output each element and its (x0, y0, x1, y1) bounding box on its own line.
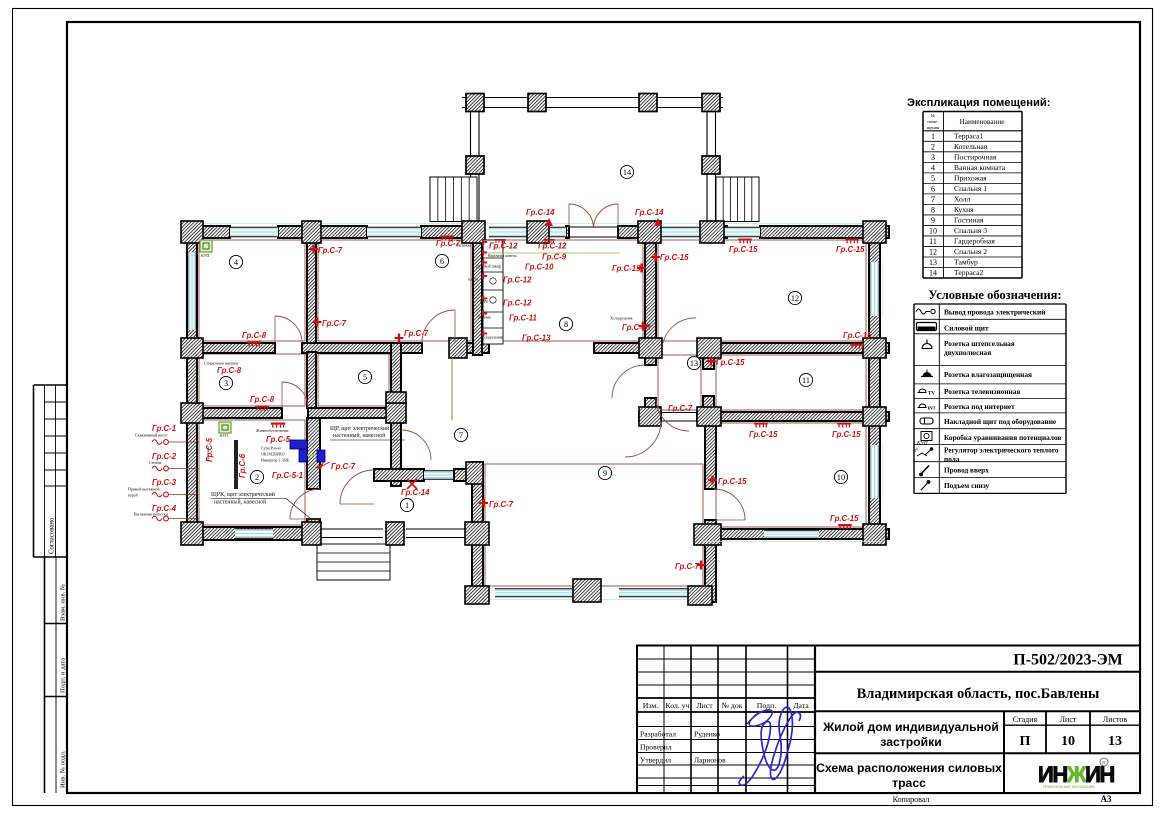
svg-text:Подъем снизу: Подъем снизу (944, 481, 990, 490)
svg-text:№ док: № док (721, 701, 742, 710)
svg-text:Гр.С-7: Гр.С-7 (318, 246, 343, 255)
window room12 north-1 (660, 227, 702, 236)
window room10 east (870, 445, 879, 498)
svg-text:13: 13 (1108, 734, 1122, 749)
svg-text:Гр.С-7: Гр.С-7 (331, 462, 356, 471)
svg-text:Листов: Листов (1103, 715, 1128, 724)
svg-text:Инв. № подл.: Инв. № подл. (60, 750, 67, 788)
svg-text:Гр.С-12: Гр.С-12 (538, 242, 567, 251)
olive line hall (451, 357, 453, 420)
svg-text:Разработал: Разработал (640, 730, 676, 739)
wall y343 segment (183, 343, 275, 353)
window room4 north (230, 227, 278, 236)
socket group (440, 236, 454, 241)
svg-text:Гр.С-14: Гр.С-14 (526, 208, 555, 217)
svg-text:Спальня 2: Спальня 2 (954, 247, 987, 256)
kitchen counter (483, 240, 503, 344)
svg-text:Гр.С-13: Гр.С-13 (612, 264, 641, 273)
svg-text:Гр.С-15: Гр.С-15 (830, 514, 859, 523)
svg-text:Розетка влагозащищенная: Розетка влагозащищенная (944, 370, 1032, 379)
svg-text:Гр.С-15: Гр.С-15 (716, 358, 745, 367)
svg-text:Чайник: Чайник (478, 315, 491, 320)
svg-text:10: 10 (929, 226, 937, 235)
socket group (255, 406, 269, 411)
door room2 (290, 489, 320, 519)
junction cross (639, 407, 661, 426)
wavy outlet symbol (152, 492, 162, 497)
socket (479, 499, 488, 508)
svg-text:1: 1 (405, 501, 409, 510)
svg-text:2: 2 (931, 142, 935, 151)
svg-text:Дата: Дата (793, 701, 809, 710)
window room9 south w (495, 589, 573, 597)
terrace left rail (470, 98, 472, 227)
wavy outlet symbol (152, 466, 162, 471)
svg-text:2: 2 (255, 473, 259, 482)
north wall segment (566, 226, 569, 238)
svg-text:настенный, навесной: настенный, навесной (333, 432, 385, 439)
terrace column (702, 156, 720, 174)
svg-text:Гр.С-13: Гр.С-13 (622, 323, 651, 332)
svg-text:Ванная комната: Ванная комната (954, 163, 1006, 172)
window room6 north (367, 227, 421, 236)
window room4 west (188, 252, 196, 330)
wall room2 east upper (307, 418, 320, 489)
svg-text:6: 6 (931, 184, 935, 193)
svg-text:Розетка штепсельная: Розетка штепсельная (944, 339, 1015, 348)
svg-text:№: № (931, 113, 936, 118)
window room2 south (235, 529, 273, 538)
socket (697, 561, 706, 570)
socket (309, 245, 318, 254)
svg-text:ЩР, щит электрический: ЩР, щит электрический (330, 425, 389, 432)
window behind terrace (489, 227, 566, 236)
blue UPS boxes (290, 440, 307, 449)
window room12 north-2 (724, 227, 760, 236)
socket (395, 334, 404, 343)
svg-text:ЩРК, щит электрический: ЩРК, щит электрический (211, 491, 275, 498)
svg-text:Гр.С-12: Гр.С-12 (489, 242, 518, 251)
north wall segment (183, 226, 230, 238)
svg-text:Подп.: Подп. (757, 701, 776, 710)
svg-text:Проверил: Проверил (640, 743, 672, 752)
svg-text:плита: плита (468, 277, 478, 282)
socket group (838, 524, 852, 529)
central wall room8|12 (645, 238, 656, 343)
tambour west wall upper (645, 353, 656, 365)
svg-text:Гр.С-14: Гр.С-14 (635, 208, 664, 217)
terrace right rail (706, 98, 708, 227)
wall y408 segment (183, 408, 282, 418)
legend symbol: socket internet (919, 404, 926, 408)
svg-text:Инвертор 3 АВБ: Инвертор 3 АВБ (261, 458, 290, 463)
svg-text:Гр.С-15: Гр.С-15 (660, 253, 689, 262)
svg-text:Лист: Лист (696, 701, 713, 710)
svg-text:t°: t° (915, 447, 919, 454)
room number 14 (620, 165, 633, 178)
svg-text:3: 3 (931, 153, 935, 162)
junction cross (386, 392, 406, 403)
svg-text:Гр.С-11: Гр.С-11 (509, 314, 537, 323)
door room6 (422, 310, 455, 343)
junction cross (863, 338, 886, 358)
door tambour south out (625, 421, 661, 457)
terrace1 north wall (374, 469, 424, 481)
svg-text:Копировал: Копировал (893, 795, 930, 804)
junction cross (639, 338, 662, 358)
svg-text:Спальня 1: Спальня 1 (954, 184, 987, 193)
room number 11 (799, 373, 812, 386)
tambour east wall upper (703, 353, 714, 369)
north wall segment (618, 226, 660, 238)
legend symbol: surface board (920, 418, 933, 424)
east wall (869, 226, 880, 540)
junction cross (302, 522, 321, 545)
svg-text:трасс: трасс (892, 776, 926, 790)
svg-text:11: 11 (802, 376, 810, 385)
legend symbol: socket two-pole (922, 344, 932, 349)
door room4 (275, 316, 302, 343)
left margin table Vzam/Podp/Inv (44, 557, 46, 793)
svg-text:Стадия: Стадия (1013, 715, 1038, 724)
svg-text:Вывод провода электрический: Вывод провода электрический (944, 308, 1046, 317)
svg-text:6: 6 (440, 257, 444, 266)
svg-text:Розетка под интернет: Розетка под интернет (944, 402, 1015, 411)
svg-text:Экспликация помещений:: Экспликация помещений: (907, 97, 1050, 109)
svg-text:Жилой дом индивидуальной: Жилой дом индивидуальной (822, 720, 999, 734)
terrace right stairs (716, 177, 759, 222)
svg-text:Котельная: Котельная (954, 142, 988, 151)
socket marks kitchen (543, 239, 554, 243)
junction cross (466, 462, 483, 484)
door room3 (282, 382, 308, 408)
svg-text:11: 11 (929, 237, 937, 246)
junction cross (863, 221, 886, 243)
svg-text:Условные обозначения:: Условные обозначения: (928, 288, 1061, 302)
svg-text:Гр.С-7: Гр.С-7 (489, 500, 514, 509)
wall rooms6|8 (473, 236, 482, 355)
svg-text:8: 8 (564, 320, 568, 329)
svg-text:Силовой щит: Силовой щит (944, 324, 989, 333)
svg-text:Жизнеобеспечение: Жизнеобеспечение (256, 428, 289, 433)
junction cross (181, 338, 203, 358)
svg-text:Гр.С-15: Гр.С-15 (749, 430, 778, 439)
wall rooms4|6 (307, 236, 316, 343)
terrace column (702, 94, 720, 112)
svg-text:Согласовано: Согласовано (49, 517, 56, 554)
svg-text:8: 8 (931, 205, 935, 214)
junction cross (573, 579, 601, 602)
window room10 south (764, 530, 819, 538)
junction cross (181, 403, 203, 423)
window room12 east (870, 262, 879, 316)
wall y408 segment (308, 408, 401, 418)
svg-text:9: 9 (931, 216, 935, 225)
svg-text:Гр.С-5: Гр.С-5 (266, 435, 291, 444)
door hall-terrace1 (340, 470, 374, 504)
legend symbol: KUP box (921, 432, 932, 441)
terrace column (466, 94, 484, 112)
svg-text:Прихожая: Прихожая (954, 173, 987, 182)
svg-text:3: 3 (224, 379, 228, 388)
svg-text:Гр.С-15: Гр.С-15 (843, 331, 872, 340)
socket (639, 322, 648, 331)
svg-text:двухполюсная: двухполюсная (944, 348, 991, 357)
junction cross (694, 524, 721, 545)
socket (708, 476, 717, 485)
wall room2 east lower (307, 519, 320, 527)
svg-text:7: 7 (459, 431, 463, 440)
junction cross (638, 221, 661, 243)
room9 west wall (472, 462, 483, 602)
room number 9 (598, 466, 611, 479)
svg-text:INT: INT (928, 406, 936, 411)
svg-text:7: 7 (931, 195, 935, 204)
equipment bar room2 (234, 440, 238, 489)
svg-text:пола: пола (944, 455, 960, 464)
svg-text:Гр.С-8: Гр.С-8 (250, 395, 275, 404)
tambour bottom threshold (661, 412, 697, 414)
svg-text:Наименование: Наименование (960, 118, 1005, 126)
socket (651, 253, 660, 262)
svg-text:Гр.С-7: Гр.С-7 (668, 404, 693, 413)
svg-text:13: 13 (929, 258, 937, 267)
legend symbol: wire up (921, 466, 930, 475)
railing column (387, 523, 403, 545)
title block (637, 646, 1140, 794)
legend symbol: rise from below (921, 482, 929, 491)
svg-text:Прямой вытяжной: Прямой вытяжной (128, 487, 160, 492)
legend symbol: socket waterproof (923, 373, 931, 377)
svg-text:Утвердил: Утвердил (640, 756, 671, 765)
svg-text:12: 12 (791, 294, 799, 303)
junction cross (688, 586, 712, 605)
svg-text:CyberPower: CyberPower (261, 446, 282, 451)
junction cross (697, 338, 721, 358)
left margin table Soglasovano (34, 384, 68, 386)
svg-text:Розетка телевизионная: Розетка телевизионная (944, 387, 1020, 396)
legend symbol: wire outlet (916, 309, 930, 314)
junction cross (700, 221, 724, 243)
outside sill lines (184, 252, 186, 330)
svg-text:2кВ Связь: 2кВ Связь (206, 446, 210, 461)
svg-text:Провод вверх: Провод вверх (944, 466, 989, 475)
socket (637, 264, 646, 273)
svg-text:короб: короб (128, 493, 138, 498)
door arc left (569, 204, 594, 228)
south wall room2 (183, 527, 305, 540)
junction cross (527, 221, 549, 243)
svg-text:Коробка уравнивания потенциало: Коробка уравнивания потенциалов (944, 433, 1061, 442)
svg-text:КУП: КУП (201, 253, 209, 258)
svg-text:Варочная панель: Варочная панель (488, 253, 517, 258)
svg-text:Кухня: Кухня (954, 205, 974, 214)
sill lines along north wall (190, 223, 888, 225)
svg-text:Стиральная машина: Стиральная машина (204, 361, 239, 366)
room number 3 (219, 376, 232, 389)
junction cross (462, 221, 485, 243)
room number 13 (687, 356, 700, 369)
wavy outlet symbol (152, 516, 162, 521)
svg-text:5: 5 (363, 373, 367, 382)
svg-text:Накладной щит под оборудование: Накладной щит под оборудование (944, 417, 1057, 426)
terrace column (528, 94, 546, 112)
wall y343 segment (703, 343, 889, 353)
svg-text:Вытяжные решетки: Вытяжные решетки (134, 512, 169, 517)
svg-text:застройки: застройки (880, 735, 941, 749)
junction cross (181, 522, 203, 545)
svg-text:Гр.С-5-1: Гр.С-5-1 (272, 471, 303, 480)
svg-text:Гр.С-7: Гр.С-7 (404, 329, 429, 338)
room number 1 (400, 498, 413, 511)
svg-text:13: 13 (690, 359, 698, 368)
svg-text:Кол. уч: Кол. уч (665, 701, 689, 710)
svg-text:Постирочная: Постирочная (954, 152, 997, 161)
svg-text:Подп. и дата: Подп. и дата (60, 658, 67, 693)
north wall segment (421, 226, 472, 238)
room10 south wall (705, 529, 889, 539)
green line kitchen (488, 252, 620, 254)
svg-text:Руденко: Руденко (694, 730, 720, 739)
svg-text:Холл: Холл (954, 194, 970, 203)
svg-text:Гр.С-12: Гр.С-12 (503, 276, 532, 285)
svg-text:поме-: поме- (927, 119, 939, 124)
svg-text:Спальня 3: Спальня 3 (954, 226, 987, 235)
svg-text:1: 1 (931, 132, 935, 141)
svg-text:Терраса1: Терраса1 (954, 131, 984, 140)
door tambour south in (656, 398, 689, 431)
socket group (850, 344, 864, 349)
junction cross (302, 221, 321, 243)
tambour east wall lower (703, 396, 714, 412)
svg-text:14: 14 (929, 269, 937, 278)
room number 4 (229, 255, 242, 268)
junction cross (386, 522, 404, 545)
svg-text:Тамбур: Тамбур (954, 258, 978, 267)
svg-text:9: 9 (603, 469, 607, 478)
KUP green box room2 (219, 422, 231, 433)
door room12 (663, 318, 696, 343)
room9|10 wall upper (705, 421, 716, 489)
north wall door opening threshold (569, 226, 618, 228)
svg-text:П: П (1020, 734, 1031, 749)
north wall segment (760, 226, 889, 238)
room number 7 (454, 428, 467, 441)
svg-text:Регулятор электрического тепло: Регулятор электрического теплого (944, 446, 1059, 455)
socket group (845, 239, 859, 244)
svg-text:Холодильник: Холодильник (480, 335, 503, 340)
junction cross (465, 522, 489, 545)
svg-text:Гр.С-15: Гр.С-15 (836, 245, 865, 254)
window terrace1 north (424, 471, 454, 479)
svg-text:10: 10 (1061, 734, 1075, 749)
svg-text:Гр.С-8: Гр.С-8 (242, 331, 267, 340)
svg-text:5: 5 (931, 174, 935, 183)
svg-text:14: 14 (623, 168, 631, 177)
svg-text:КУП: КУП (220, 434, 228, 438)
junction cross (181, 221, 203, 243)
wall y343 segment (455, 343, 489, 353)
svg-text:OR1M2BPRO: OR1M2BPRO (261, 452, 285, 457)
svg-text:Гардеробная: Гардеробная (954, 236, 995, 245)
door arc right (594, 204, 619, 228)
window room9 south e (619, 589, 689, 597)
svg-text:настенный, навесной: настенный, навесной (214, 499, 266, 506)
svg-text:12: 12 (929, 248, 937, 257)
svg-text:ТV: ТV (928, 392, 935, 397)
hall stub wall (391, 343, 401, 397)
svg-text:Гр.С-15: Гр.С-15 (718, 477, 747, 486)
terrace top rail (462, 97, 723, 99)
svg-text:Гр.С-8: Гр.С-8 (217, 366, 242, 375)
svg-text:Терраса2: Терраса2 (954, 268, 984, 277)
terrace left stairs (430, 177, 477, 222)
junction cross (863, 524, 886, 545)
svg-text:Гр.С-14: Гр.С-14 (401, 488, 430, 497)
svg-text:4: 4 (931, 163, 935, 172)
wall y412 segment (697, 412, 889, 421)
svg-text:Гр.С-15: Гр.С-15 (729, 245, 758, 254)
svg-text:10: 10 (837, 473, 845, 482)
signature (739, 707, 800, 785)
legend symbol: socket TV (919, 389, 926, 393)
svg-text:Гр.С-7: Гр.С-7 (322, 319, 347, 328)
door tambour west (612, 365, 645, 398)
door room10 (714, 489, 745, 520)
wall y343 segment (302, 343, 422, 353)
kitchen appliance wall ticks (482, 239, 484, 245)
svg-text:Владимирская область, пос.Бавл: Владимирская область, пос.Бавлены (857, 686, 1100, 702)
room number 12 (788, 291, 801, 304)
shchr stub wall (391, 418, 401, 486)
svg-text:Скважинный насос: Скважинный насос (135, 433, 168, 438)
svg-text:Гр.С-15: Гр.С-15 (832, 430, 861, 439)
wall rooms3|5 (307, 352, 316, 408)
terrace1 north wall e (454, 469, 472, 481)
terrace column (639, 94, 657, 112)
svg-text:Инженерные инновации: Инженерные инновации (1043, 784, 1095, 789)
terrace1 railing (319, 528, 383, 530)
svg-text:Гр.С-6: Гр.С-6 (238, 453, 247, 478)
svg-text:Гр.С-10: Гр.С-10 (525, 263, 554, 272)
svg-text:R: R (1102, 760, 1106, 766)
svg-text:Лист: Лист (1060, 715, 1077, 724)
north wall segment (278, 226, 367, 238)
svg-text:Гр.С-13: Гр.С-13 (522, 334, 551, 343)
svg-text:4: 4 (234, 258, 238, 267)
room number 10 (834, 470, 847, 483)
svg-text:Духовой шкаф: Духовой шкаф (476, 264, 501, 269)
junction cross (863, 407, 886, 426)
svg-text:Гр.С-7: Гр.С-7 (675, 562, 700, 571)
junction cross (697, 407, 721, 426)
door shchr area (401, 430, 431, 460)
north wall segment (702, 226, 727, 238)
svg-text:Схема расположения силовых: Схема расположения силовых (816, 761, 1002, 775)
svg-text:Гр.С-9: Гр.С-9 (542, 253, 567, 262)
socket group (754, 423, 768, 428)
socket (707, 357, 716, 366)
svg-text:Изм.: Изм. (643, 701, 659, 710)
wire route outlines (199, 240, 305, 341)
room9 east wall lower (705, 520, 716, 602)
svg-text:КУП: КУП (916, 441, 928, 447)
socket (313, 318, 322, 327)
room number 2 (250, 470, 263, 483)
junction cross (386, 403, 406, 423)
svg-text:Вытяжка: Вытяжка (456, 243, 472, 248)
junction cross (465, 586, 489, 604)
